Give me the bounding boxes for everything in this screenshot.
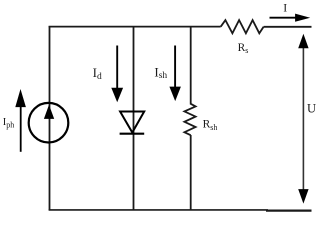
svg-text:Iph: Iph xyxy=(3,117,15,130)
svg-text:I: I xyxy=(283,1,287,15)
svg-text:U: U xyxy=(307,101,316,115)
svg-text:Ish: Ish xyxy=(154,64,167,81)
svg-text:Rsh: Rsh xyxy=(203,119,218,132)
svg-text:Id: Id xyxy=(93,65,102,82)
svg-text:Rs: Rs xyxy=(238,42,249,55)
